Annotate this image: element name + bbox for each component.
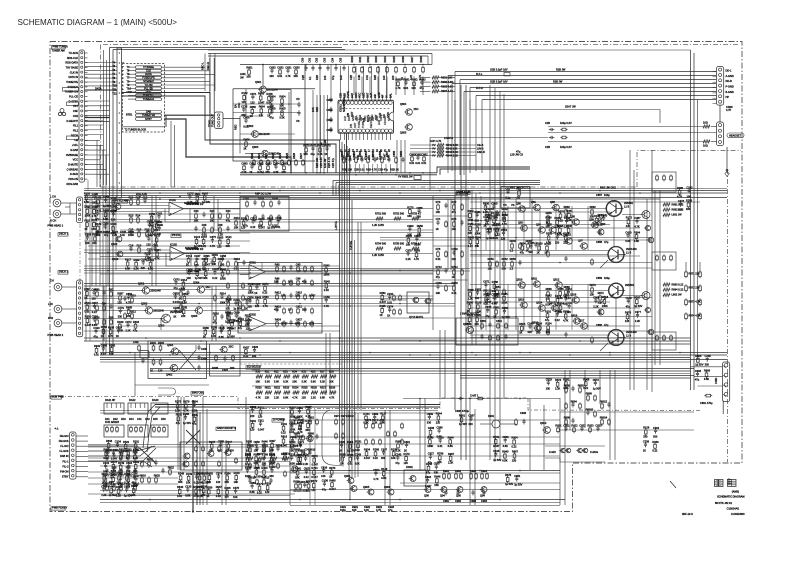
svg-text:R598: R598 xyxy=(468,288,475,292)
svg-text:R902: R902 xyxy=(467,209,474,213)
fl cluster parts xyxy=(557,426,559,428)
capacitor C771 xyxy=(300,442,302,444)
br wires xyxy=(560,411,694,413)
resistor R101 xyxy=(547,312,549,314)
svg-text:0.01: 0.01 xyxy=(289,430,295,434)
svg-text:R307: R307 xyxy=(202,192,209,196)
capacitor C274 xyxy=(93,317,95,319)
resistor R551 xyxy=(228,329,230,331)
capacitor C864 xyxy=(193,402,195,404)
capacitor C871 xyxy=(252,94,254,96)
svg-text:R16: R16 xyxy=(137,227,142,231)
resistor R671 xyxy=(97,198,99,200)
resistor R666 xyxy=(706,371,708,373)
svg-text:IC302: IC302 xyxy=(249,312,256,316)
svg-text:RA43: RA43 xyxy=(152,398,159,402)
capacitor C792 xyxy=(389,294,391,296)
svg-text:IN2: IN2 xyxy=(359,116,363,121)
resistor R524 xyxy=(293,391,300,394)
capacitor C512 xyxy=(503,230,505,232)
svg-text:Q303: Q303 xyxy=(158,324,165,328)
head2 mid parts xyxy=(180,290,182,292)
capacitor C689 xyxy=(251,483,253,485)
svg-text:R671: R671 xyxy=(310,144,317,148)
svg-text:R997: R997 xyxy=(448,452,455,456)
resistor R573 xyxy=(557,381,559,383)
resistor R936 xyxy=(547,219,549,221)
svg-text:1K: 1K xyxy=(492,223,495,227)
transistor Q805 xyxy=(550,227,557,234)
svg-text:R692: R692 xyxy=(411,78,418,82)
bus under IC601 xyxy=(240,172,437,174)
page border xyxy=(50,42,742,512)
svg-text:R45: R45 xyxy=(153,417,158,421)
resistor R957 xyxy=(217,488,219,490)
svg-text:R2B 10K: R2B 10K xyxy=(315,158,319,168)
svg-text:C864: C864 xyxy=(192,400,199,404)
svg-text:C284: C284 xyxy=(111,209,118,213)
svg-text:R243: R243 xyxy=(324,280,331,284)
op-amp IC101b xyxy=(170,247,185,261)
resistor R831 xyxy=(194,416,196,418)
svg-text:0.01: 0.01 xyxy=(387,301,393,305)
capacitor C853 xyxy=(174,294,176,296)
resistor R631 xyxy=(432,81,439,84)
transistor Q860 xyxy=(466,326,473,333)
svg-text:0.01: 0.01 xyxy=(277,74,283,78)
svg-text:1K: 1K xyxy=(126,456,129,460)
svg-text:TUNER AM: TUNER AM xyxy=(52,49,65,53)
resistor R307 xyxy=(204,194,206,196)
resistor R117 xyxy=(205,270,207,272)
resistor R121 xyxy=(299,483,301,485)
svg-text:10K: 10K xyxy=(436,291,441,295)
head1 right parts xyxy=(195,212,197,214)
connector CN601 tuner I/F xyxy=(79,50,85,182)
bias circuit box xyxy=(456,318,518,345)
top cluster row above IC extra xyxy=(397,80,399,82)
board outline notch link xyxy=(528,398,700,411)
svg-text:T11: T11 xyxy=(112,88,117,92)
head2 dots xyxy=(103,303,105,305)
boxed net STEREO xyxy=(63,88,79,92)
svg-text:330: 330 xyxy=(226,306,231,310)
resistor R525 xyxy=(302,391,309,394)
resistor R251 xyxy=(568,212,570,214)
resistor R941 xyxy=(297,469,299,471)
svg-text:R172: R172 xyxy=(626,215,633,219)
resistor R607 xyxy=(413,66,415,68)
head2 parts columns xyxy=(96,290,98,292)
svg-text:330: 330 xyxy=(536,330,541,334)
resistor array RA42 xyxy=(128,403,148,414)
svg-text:R620: R620 xyxy=(250,152,254,159)
left small parts near bias xyxy=(138,344,140,346)
svg-text:0.01: 0.01 xyxy=(120,233,126,237)
IC601 pin 2 top xyxy=(343,101,347,105)
capacitor C604 xyxy=(335,65,337,67)
svg-text:CH: CH xyxy=(50,279,54,283)
svg-text:R17: R17 xyxy=(145,227,150,231)
resistor R893 xyxy=(205,257,207,259)
svg-text:0.047: 0.047 xyxy=(259,226,266,230)
resistor R652 xyxy=(105,450,107,452)
svg-text:R2B: R2B xyxy=(342,93,346,98)
resistor R788 xyxy=(688,201,690,203)
top-left of IC cluster parts xyxy=(295,68,297,70)
svg-text:0.22: 0.22 xyxy=(194,480,200,484)
capacitor headset cluster xyxy=(549,129,551,131)
svg-text:33K: 33K xyxy=(241,113,246,117)
capacitor C605 xyxy=(343,65,345,67)
capacitor C108 xyxy=(323,481,325,483)
resistor R649 xyxy=(119,323,121,325)
capacitor C822 xyxy=(375,470,377,472)
pwr mid circle lower2 xyxy=(645,307,650,312)
svg-text:R617: R617 xyxy=(410,56,414,63)
svg-text:0.047: 0.047 xyxy=(281,322,288,326)
svg-text:C304: C304 xyxy=(653,426,660,430)
svg-text:R480: R480 xyxy=(677,186,684,190)
svg-text:0.01: 0.01 xyxy=(85,310,91,314)
svg-text:DATA: DATA xyxy=(95,87,102,91)
resistor R50 xyxy=(256,375,263,378)
svg-text:2.2K: 2.2K xyxy=(317,152,323,156)
capacitor C236 xyxy=(133,474,135,476)
capacitor C240 xyxy=(397,455,399,457)
CN28 stubs xyxy=(713,71,717,73)
svg-text:R909: R909 xyxy=(134,258,141,262)
svg-text:0.047: 0.047 xyxy=(383,153,387,160)
label HEADSET xyxy=(727,133,744,138)
svg-text:R911: R911 xyxy=(195,192,201,196)
svg-text:C201: C201 xyxy=(243,197,250,201)
svg-text:L1 B: L1 B xyxy=(624,205,630,209)
resistor R843 xyxy=(257,298,259,300)
svg-text:R466: R466 xyxy=(329,478,336,482)
capacitor C257 xyxy=(119,476,121,478)
IC601 pin 20 bottom xyxy=(370,129,374,133)
wire bottom rails xyxy=(100,499,565,501)
svg-text:R124: R124 xyxy=(194,235,201,239)
svg-text:4.7K: 4.7K xyxy=(373,477,379,481)
svg-text:R9514: R9514 xyxy=(283,451,291,455)
svg-text:VS: VS xyxy=(511,203,515,207)
connector small left xyxy=(140,351,149,359)
dots sprinkle xyxy=(119,190,121,192)
resistor R243 xyxy=(325,282,327,284)
svg-text:SUB PWB: SUB PWB xyxy=(52,395,64,399)
tuner block row DATA xyxy=(136,73,162,76)
svg-text:1K: 1K xyxy=(544,251,547,255)
resistor R864 xyxy=(476,238,478,240)
resistor R179 xyxy=(259,485,261,487)
svg-text:C637: C637 xyxy=(92,301,99,305)
svg-text:C708: C708 xyxy=(643,440,650,444)
capacitor C602 xyxy=(319,65,321,67)
resistor R938 xyxy=(110,328,112,330)
svg-text:330: 330 xyxy=(230,366,235,370)
resistor R291 xyxy=(565,380,567,382)
capacitor C947 xyxy=(135,476,137,478)
svg-text:HP: HP xyxy=(726,95,730,99)
svg-text:L401: L401 xyxy=(133,340,139,344)
svg-text:C195: C195 xyxy=(493,449,500,453)
bottom-left cluster C xyxy=(106,453,108,455)
resistor R584 xyxy=(264,298,266,300)
IC601 pin 13 top xyxy=(385,101,389,105)
svg-text:R422: R422 xyxy=(467,313,474,317)
svg-text:10K: 10K xyxy=(179,309,184,313)
svg-text:C936: C936 xyxy=(289,421,296,425)
svg-text:2SD1406: 2SD1406 xyxy=(626,247,637,251)
resistor R527 xyxy=(320,391,327,394)
resistor R234 xyxy=(213,256,215,258)
svg-text:47µ: 47µ xyxy=(133,329,138,333)
svg-text:16Ω: 16Ω xyxy=(703,144,708,148)
resistor R889 xyxy=(271,456,273,458)
svg-text:R446: R446 xyxy=(109,485,116,489)
svg-text:R697: R697 xyxy=(269,439,276,443)
resistor R698 xyxy=(397,442,399,444)
svg-text:C406: C406 xyxy=(201,357,208,361)
svg-text:10K: 10K xyxy=(292,380,297,384)
resistor R949 xyxy=(96,347,98,349)
svg-text:120: 120 xyxy=(117,300,122,304)
svg-text:0.022: 0.022 xyxy=(352,153,356,160)
svg-text:10K: 10K xyxy=(186,481,191,485)
resistor R639 xyxy=(654,443,656,445)
resistor R401 xyxy=(349,443,351,445)
svg-text:2SA7 JW: 2SA7 JW xyxy=(565,105,576,109)
svg-text:220: 220 xyxy=(250,414,255,418)
svg-text:R209: R209 xyxy=(241,217,248,221)
svg-text:4.7K: 4.7K xyxy=(329,396,335,400)
svg-text:FUSE/LPS: FUSE/LPS xyxy=(142,76,155,80)
svg-text:C685: C685 xyxy=(281,162,288,166)
svg-text:R78: R78 xyxy=(436,247,441,251)
svg-text:1K: 1K xyxy=(339,449,342,453)
medium transistor Q855 xyxy=(642,211,650,219)
svg-text:C147: C147 xyxy=(527,321,534,325)
svg-text:R551: R551 xyxy=(227,326,234,330)
svg-text:220: 220 xyxy=(555,240,560,244)
cn601 mid feeds 2 xyxy=(85,119,103,121)
svg-text:47µ: 47µ xyxy=(395,461,400,465)
svg-text:PWB FL/KEY: PWB FL/KEY xyxy=(52,506,68,510)
connector CN31 xyxy=(723,362,730,402)
svg-text:L IN: L IN xyxy=(48,302,53,306)
svg-text:3.3K: 3.3K xyxy=(356,154,360,160)
svg-text:100K: 100K xyxy=(297,415,303,419)
svg-text:C872: C872 xyxy=(125,320,132,324)
title block stamp hatch 2 xyxy=(728,480,737,487)
label PWR AMP xyxy=(456,192,467,196)
tuning knob icon xyxy=(60,109,64,113)
svg-text:C989: C989 xyxy=(101,484,108,488)
svg-text:R690: R690 xyxy=(395,78,402,82)
svg-text:100K: 100K xyxy=(248,291,254,295)
capacitor C869 xyxy=(374,414,376,416)
svg-text:330: 330 xyxy=(118,315,123,319)
svg-text:0.22: 0.22 xyxy=(373,456,379,460)
svg-text:220: 220 xyxy=(468,422,473,426)
capacitor C872 xyxy=(127,322,129,324)
svg-text:10K: 10K xyxy=(546,330,551,334)
capacitor C788 xyxy=(263,455,265,457)
svg-text:R361: R361 xyxy=(126,448,133,452)
resistor R624 xyxy=(203,487,205,489)
svg-text:R158: R158 xyxy=(266,92,273,96)
svg-text:D-RECHT: D-RECHT xyxy=(67,119,79,123)
svg-text:0.01: 0.01 xyxy=(415,161,421,165)
capacitor C323 xyxy=(247,468,249,470)
wire bus rec dark xyxy=(85,117,110,119)
resistor R707 xyxy=(495,230,497,232)
resistor R121 xyxy=(227,238,229,240)
wire mid rails xyxy=(100,352,727,354)
resistor R146 xyxy=(383,470,385,472)
svg-text:C187: C187 xyxy=(468,414,475,418)
svg-text:C429: C429 xyxy=(625,230,632,234)
svg-text:330: 330 xyxy=(475,296,480,300)
transistor Q807 xyxy=(581,243,588,250)
output box verticals xyxy=(447,199,449,270)
svg-text:R712: R712 xyxy=(436,265,443,269)
svg-text:1µ 50V: 1µ 50V xyxy=(183,421,191,425)
resistor R480 xyxy=(679,189,681,191)
svg-text:R401: R401 xyxy=(150,341,157,345)
bus band bottom extra xyxy=(100,502,560,504)
capacitor C851 xyxy=(298,408,300,410)
svg-text:0.047: 0.047 xyxy=(281,443,288,447)
capacitor C574 xyxy=(218,474,220,476)
svg-text:VV R651 JW: VV R651 JW xyxy=(398,175,413,179)
svg-text:R666: R666 xyxy=(704,369,711,373)
transistor Q817 xyxy=(581,323,588,330)
svg-text:R755 560: R755 560 xyxy=(393,242,405,246)
svg-text:330: 330 xyxy=(417,215,422,219)
IC601 pin 11 top xyxy=(377,101,381,105)
svg-text:0.22: 0.22 xyxy=(566,233,572,237)
svg-text:1µ 50V: 1µ 50V xyxy=(493,458,501,462)
svg-text:12K: 12K xyxy=(302,396,307,400)
wire bottom-center verticals xyxy=(348,410,350,480)
capacitor C670 xyxy=(175,280,177,282)
svg-text:120: 120 xyxy=(242,100,247,104)
resistor R529 xyxy=(267,484,269,486)
wire staircase top-center dark xyxy=(122,96,341,140)
svg-text:6.8K: 6.8K xyxy=(148,267,154,271)
svg-text:100: 100 xyxy=(474,322,479,326)
svg-text:VS: VS xyxy=(296,119,300,123)
svg-text:0.01: 0.01 xyxy=(348,462,354,466)
svg-text:C822: C822 xyxy=(373,468,380,472)
svg-text:RDS-CLK: RDS-CLK xyxy=(67,56,78,60)
capacitor C311 xyxy=(260,421,262,423)
svg-text:NJM4558FP: NJM4558FP xyxy=(342,98,346,112)
svg-text:5.6K: 5.6K xyxy=(274,380,280,384)
svg-text:TU-SCS: TU-SCS xyxy=(69,51,79,55)
wire right rails xyxy=(690,50,692,390)
svg-text:R966: R966 xyxy=(308,431,315,435)
svg-text:C682: C682 xyxy=(257,162,264,166)
svg-text:C658: C658 xyxy=(392,150,396,157)
svg-text:220: 220 xyxy=(217,244,222,248)
capacitor C126 xyxy=(196,474,198,476)
transistor Q601 xyxy=(260,86,267,93)
svg-text:P/B: P/B xyxy=(349,124,353,128)
resistor pair 3 xyxy=(481,472,483,474)
svg-text:0.01: 0.01 xyxy=(341,154,345,160)
resistor R781 xyxy=(495,438,497,440)
svg-text:R635: R635 xyxy=(501,292,508,296)
bus band strengthen xyxy=(84,188,727,190)
svg-text:6.8K: 6.8K xyxy=(103,217,109,221)
svg-text:R568: R568 xyxy=(340,453,347,457)
capacitor C959 xyxy=(235,313,237,315)
resistor R968 xyxy=(585,380,587,382)
svg-text:BIAS OSC: BIAS OSC xyxy=(192,391,204,395)
svg-text:6.8K: 6.8K xyxy=(634,239,640,243)
capacitor C478 xyxy=(110,474,112,476)
svg-text:10K: 10K xyxy=(348,155,352,160)
svg-text:10K: 10K xyxy=(269,448,274,452)
svg-text:C959: C959 xyxy=(234,311,241,315)
svg-text:C850: C850 xyxy=(601,213,608,217)
jack CH 2 xyxy=(54,283,62,291)
resistor R543 xyxy=(325,266,327,268)
connector CN12 xyxy=(77,280,83,337)
svg-text:100K: 100K xyxy=(245,474,251,478)
svg-text:C572: C572 xyxy=(593,378,600,382)
svg-text:R786: R786 xyxy=(373,447,380,451)
svg-text:R635: R635 xyxy=(406,234,413,238)
resistor R867 xyxy=(514,452,516,454)
svg-text:2SD1406: 2SD1406 xyxy=(626,330,637,334)
resistor R384 xyxy=(226,474,228,476)
bc wires extra xyxy=(290,436,560,438)
svg-text:Q601: Q601 xyxy=(255,80,262,84)
svg-text:C159: C159 xyxy=(324,295,331,299)
capacitor C408 xyxy=(557,234,559,236)
svg-text:R423: R423 xyxy=(296,453,303,457)
svg-text:33K: 33K xyxy=(178,480,183,484)
bias circuit parts xyxy=(481,322,483,324)
resistor R946 xyxy=(449,438,451,440)
resistor R997 xyxy=(450,455,452,457)
svg-text:100K: 100K xyxy=(475,231,481,235)
svg-text:PB EQ AMP: PB EQ AMP xyxy=(115,199,129,203)
svg-text:4.7K: 4.7K xyxy=(297,443,303,447)
resistor R647 xyxy=(104,476,106,478)
svg-text:R2B 10K: R2B 10K xyxy=(342,168,352,172)
capacitor C160 xyxy=(247,320,249,322)
svg-text:47µ: 47µ xyxy=(213,320,218,324)
power transistor Q851 xyxy=(606,201,622,217)
pwr emitter diagonals xyxy=(598,214,606,222)
svg-text:C223: C223 xyxy=(233,298,240,302)
svg-text:R921: R921 xyxy=(555,424,562,428)
svg-text:PWB HEAD 1: PWB HEAD 1 xyxy=(48,224,64,228)
tuner block row FUSE/LPS xyxy=(136,76,162,79)
wire bias bottom xyxy=(135,384,209,386)
resistor R331 xyxy=(269,108,271,110)
svg-text:220: 220 xyxy=(563,240,568,244)
svg-text:C858: C858 xyxy=(596,240,603,244)
svg-text:0.01: 0.01 xyxy=(288,280,294,284)
resistor R451 xyxy=(469,225,471,227)
